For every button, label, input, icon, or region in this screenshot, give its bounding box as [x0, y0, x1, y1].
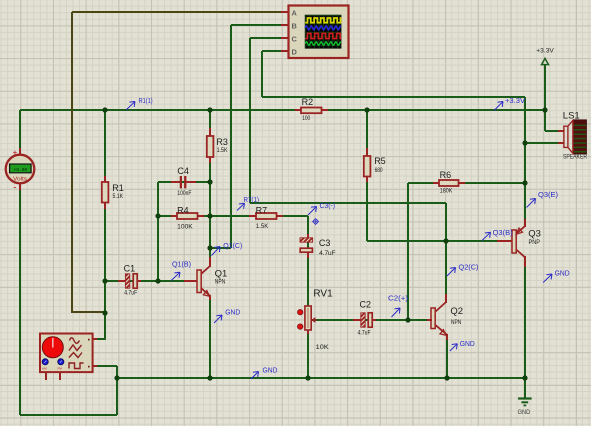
- svg-text:GND: GND: [460, 341, 475, 348]
- svg-text:FM: FM: [58, 366, 63, 370]
- svg-text:100: 100: [302, 115, 310, 122]
- svg-text:+3.3V: +3.3V: [505, 98, 525, 105]
- svg-text:AM: AM: [42, 366, 47, 370]
- svg-text:NPN: NPN: [451, 319, 462, 326]
- svg-text:100K: 100K: [177, 224, 193, 231]
- svg-text:C4: C4: [177, 166, 189, 176]
- svg-text:680: 680: [375, 167, 383, 174]
- svg-text:LS1: LS1: [563, 111, 580, 122]
- svg-text:1.5K: 1.5K: [256, 223, 269, 230]
- svg-text:R6: R6: [440, 170, 452, 180]
- svg-text:+: +: [13, 148, 18, 157]
- svg-text:+0.00: +0.00: [14, 167, 28, 173]
- svg-text:+3.3V: +3.3V: [536, 48, 554, 55]
- svg-text:Q3(B): Q3(B): [493, 230, 513, 237]
- svg-text:5.1K: 5.1K: [113, 193, 124, 200]
- svg-text:Q3(E): Q3(E): [538, 192, 558, 199]
- svg-text:C: C: [292, 35, 298, 44]
- svg-text:D: D: [292, 47, 298, 56]
- svg-text:B: B: [292, 22, 297, 31]
- svg-text:GND: GND: [555, 271, 570, 278]
- svg-text:Q2: Q2: [450, 306, 463, 317]
- svg-text:10K: 10K: [316, 344, 330, 351]
- svg-text:180K: 180K: [440, 187, 453, 194]
- svg-text:R7(1): R7(1): [244, 197, 260, 204]
- svg-text:Q1(C): Q1(C): [223, 243, 242, 250]
- svg-text:R3: R3: [216, 137, 228, 147]
- svg-text:C1: C1: [124, 264, 136, 274]
- svg-text:R2: R2: [302, 97, 314, 107]
- svg-text:SPEAKER: SPEAKER: [563, 154, 587, 161]
- svg-text:4.7uF: 4.7uF: [358, 330, 371, 337]
- svg-text:GND: GND: [518, 409, 531, 416]
- svg-text:A: A: [292, 9, 298, 18]
- svg-text:GND: GND: [263, 368, 278, 375]
- svg-text:4.7uF: 4.7uF: [319, 250, 336, 257]
- svg-text:RV1: RV1: [313, 289, 333, 300]
- svg-text:C2: C2: [360, 300, 372, 310]
- svg-text:C3(-): C3(-): [320, 203, 336, 210]
- svg-text:R1: R1: [112, 183, 124, 193]
- svg-text:NPN: NPN: [215, 278, 226, 285]
- svg-text:Q3: Q3: [528, 228, 541, 239]
- svg-text:GND: GND: [225, 309, 240, 316]
- svg-text:100nF: 100nF: [177, 190, 191, 197]
- svg-text:Q1(B): Q1(B): [172, 261, 191, 268]
- svg-text:R7: R7: [256, 205, 268, 215]
- svg-text:PNP: PNP: [529, 239, 541, 246]
- svg-text:C2(+): C2(+): [388, 296, 408, 303]
- svg-text:R1(1): R1(1): [139, 98, 153, 105]
- svg-text:C3: C3: [319, 238, 331, 248]
- svg-text:1.5K: 1.5K: [217, 147, 228, 154]
- svg-text:Q2(C): Q2(C): [459, 264, 479, 271]
- svg-text:R5: R5: [374, 156, 386, 166]
- svg-text:4.7uF: 4.7uF: [124, 290, 137, 297]
- svg-text:-: -: [14, 182, 17, 191]
- svg-text:R4: R4: [177, 205, 189, 215]
